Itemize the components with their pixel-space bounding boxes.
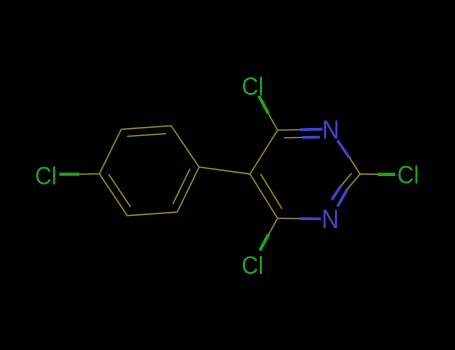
bond C6-Cl bottom olive half (269, 218, 278, 234)
bond N1-C6 blue half (299, 217, 321, 220)
bond N3-C2 olive half (350, 158, 360, 174)
svg-text:Cl: Cl (397, 162, 419, 190)
bond Cl-C1' green half (left) (59, 173, 79, 176)
bond Cl-C1' olive half (left) (79, 173, 99, 175)
svg-text:N: N (322, 205, 339, 234)
bond C6-Cl bottom green half (260, 234, 269, 250)
bond C2-Cl right green half (378, 173, 396, 176)
bond C2=N1 inner blue half (332, 187, 341, 200)
bond C2-Cl right olive half (360, 173, 378, 175)
bond C2=N1 main blue half (338, 189, 348, 207)
benzene double bond inner line left-lower edge (109, 175, 130, 207)
bond N3-C2 blue half (338, 141, 350, 159)
bond C4=N3 main blue half (300, 128, 323, 131)
benzene double bond inner line top edge (128, 134, 166, 137)
bond C4-C5 (250, 130, 278, 174)
wire connector bond C1'-C5 (199, 167, 250, 174)
bond C5=C6 inner line (261, 174, 282, 208)
bond C5=C6 main (250, 174, 278, 218)
svg-text:Cl: Cl (242, 73, 264, 101)
bond N1-C6 olive half (278, 217, 300, 219)
bond C4=N3 inner olive half (285, 136, 303, 138)
benzene double bond inner line right-lower edge (173, 169, 190, 203)
bond C2=N1 inner olive half (341, 174, 352, 187)
svg-text:Cl: Cl (35, 163, 57, 191)
bond C4=N3 inner blue half (302, 136, 320, 139)
svg-text:Cl: Cl (242, 252, 264, 280)
benzene ring (4-chlorophenyl) (99, 126, 199, 216)
bond C2=N1 main olive half (348, 174, 361, 189)
bond C4=N3 main olive half (278, 129, 301, 132)
svg-text:N: N (322, 116, 339, 145)
bond C4-Cl top green half (259, 96, 268, 114)
bond C4-Cl top olive half (268, 113, 277, 130)
